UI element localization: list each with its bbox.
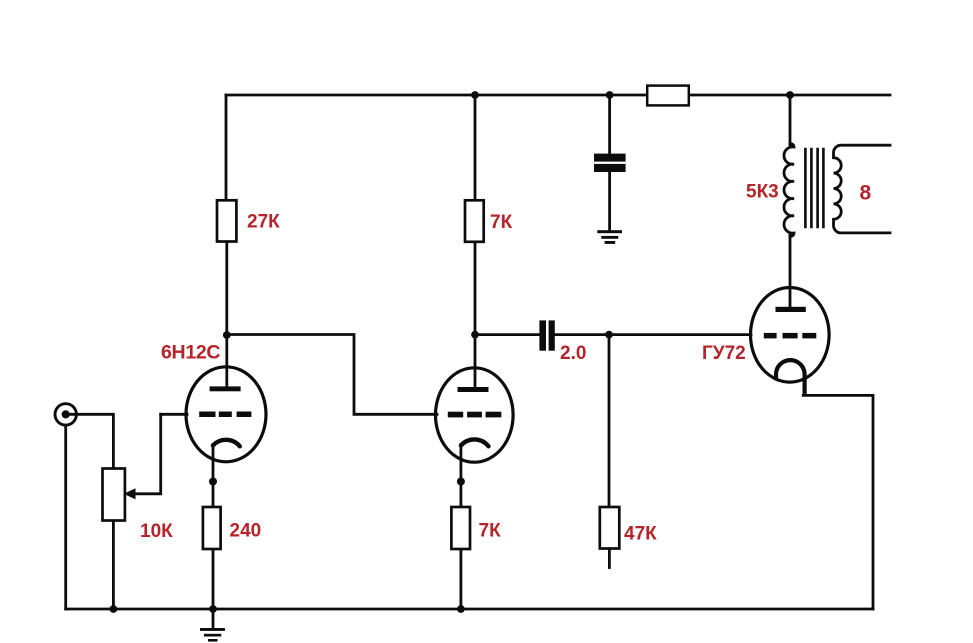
V1 cathode arc	[213, 440, 240, 446]
svg-text:2.0: 2.0	[560, 343, 586, 364]
wire V1 grid lead	[161, 413, 187, 416]
capacitor C1 filter plates	[594, 154, 626, 172]
V2 grid dashes	[448, 412, 502, 418]
svg-text:ГУ72: ГУ72	[702, 343, 746, 364]
node dot C2 / R5 / V3 grid	[605, 331, 613, 339]
wire node C drop to R5	[608, 335, 611, 507]
tube V1 label 6Н12С	[161, 342, 220, 364]
wire pot wiper to V1 grid	[132, 414, 161, 494]
wire node B to C2	[475, 333, 539, 336]
wire R5 bottom stub	[608, 549, 611, 568]
node dot V2 cathode / R4	[457, 478, 465, 486]
wire pot bottom to rail	[112, 521, 115, 610]
svg-text:5К3: 5К3	[746, 182, 779, 203]
wire interstage V1 plate to V2 grid	[227, 335, 437, 415]
svg-text:47К: 47К	[624, 524, 657, 545]
fuse / dropper resistor box on B+ rail	[647, 86, 689, 106]
transformer secondary label 8	[860, 181, 872, 204]
wire ground stem at R3	[212, 609, 215, 629]
ground symbol at R3 / bottom rail	[200, 628, 225, 642]
tube V3 label ГУ72	[702, 343, 746, 364]
R3 value label 240	[230, 521, 262, 542]
wire R1 bottom lead to node A	[225, 242, 228, 336]
node dot V1 cathode / R3	[209, 478, 217, 486]
R5 value label 47К	[624, 524, 657, 545]
node dot V1 plate / R1	[223, 331, 231, 339]
wire primary bottom lead to V3 plate	[789, 235, 792, 307]
wire transformer primary top lead	[789, 95, 792, 145]
resistor R5 47K	[600, 507, 620, 549]
V1 anode plate bar	[210, 386, 241, 391]
wire node D drop to C1	[608, 95, 611, 154]
node dot V2 plate / R2	[471, 331, 479, 339]
wire V1 plate lead	[225, 335, 228, 387]
node dot rail/T1 primary	[786, 91, 794, 99]
wire top rail drop to R1	[225, 95, 228, 200]
svg-text:10К: 10К	[140, 521, 173, 542]
wire B+ top rail	[226, 94, 890, 97]
wire ground bottom rail	[66, 608, 873, 611]
vacuum tube V2 envelope	[436, 368, 514, 462]
wire V1 cathode lead	[212, 445, 215, 508]
svg-text:240: 240	[230, 521, 262, 542]
wire R3 bottom lead to rail	[212, 549, 215, 609]
svg-text:27К: 27К	[247, 212, 280, 233]
V3 cathode arch	[776, 360, 805, 394]
potentiometer VR1 10K body	[103, 469, 125, 521]
input jack J1	[55, 404, 76, 425]
R2 value label 7К	[490, 212, 513, 233]
wire V2 cathode lead	[459, 445, 462, 508]
svg-text:6Н12С: 6Н12С	[161, 342, 220, 364]
node dot rail/C1	[606, 91, 614, 99]
transformer primary label 5К3	[746, 182, 779, 203]
wire jack sleeve to bottom rail	[64, 426, 67, 610]
transformer T1 core	[805, 149, 823, 227]
vacuum tube V3 ГУ72 envelope	[751, 288, 830, 383]
resistor R2 7K	[465, 200, 484, 242]
svg-text:7К: 7К	[490, 212, 513, 233]
wire C2 to node C and V3 grid	[554, 333, 752, 336]
node dot pot / bottom rail	[110, 605, 118, 613]
wire input jack to pot top	[66, 414, 113, 468]
transformer T1 secondary winding with leads	[834, 145, 891, 233]
ground symbol at C1	[597, 230, 622, 244]
V2 anode plate bar	[458, 387, 489, 392]
R1 value label 27К	[247, 212, 280, 233]
node dot R4 / bottom rail	[457, 605, 465, 613]
wire V2 plate lead	[474, 335, 477, 388]
wire V3 cathode to bottom rail	[803, 395, 873, 609]
C2 value label 2.0	[560, 343, 586, 364]
wire C1 bottom to ground	[608, 172, 611, 231]
resistor R4 7K	[451, 507, 470, 549]
VR1 value label 10К	[140, 521, 173, 542]
VR1 wiper arrowhead	[124, 488, 136, 499]
node dot R3 / bottom rail	[209, 605, 217, 613]
node dot rail/R2	[471, 91, 479, 99]
resistor R1 27K	[217, 200, 236, 241]
svg-text:7К: 7К	[479, 521, 502, 542]
wire rail drop to R2	[474, 95, 477, 200]
vacuum tube V1 6Н12С envelope	[186, 367, 266, 462]
transformer T1 primary winding	[784, 144, 794, 237]
svg-text:8: 8	[860, 181, 872, 204]
wire R2 bottom lead to node B	[474, 242, 477, 335]
V3 anode plate bar	[776, 307, 806, 312]
R4 value label 7К	[479, 521, 502, 542]
V2 cathode arc	[461, 439, 489, 446]
capacitor C2 coupling plates	[539, 320, 554, 350]
resistor R3 240	[203, 507, 221, 549]
V1 grid dashes	[199, 412, 251, 418]
V3 grid dashes	[764, 333, 817, 339]
wire R4 bottom lead to rail	[459, 549, 462, 609]
